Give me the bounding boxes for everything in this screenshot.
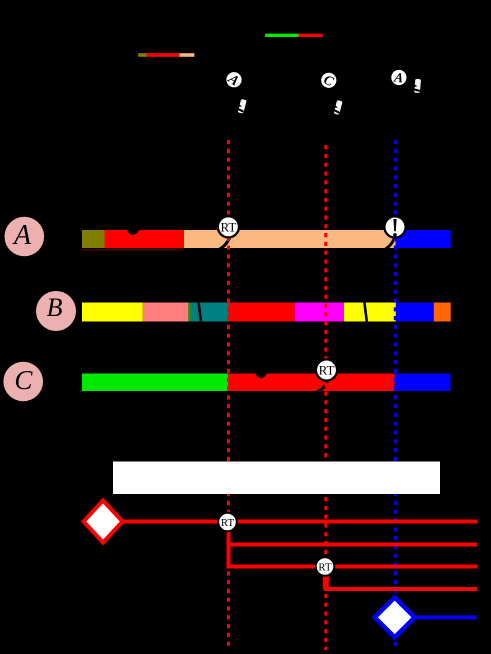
svg-text:RT: RT (318, 561, 332, 573)
svg-text:C: C (14, 365, 33, 395)
svg-text:A: A (392, 69, 404, 85)
svg-text:RT: RT (319, 363, 335, 378)
svg-text:RT: RT (220, 219, 236, 234)
svg-text:A: A (12, 220, 32, 251)
svg-text:B: B (47, 293, 63, 322)
svg-text:RT: RT (221, 517, 235, 529)
